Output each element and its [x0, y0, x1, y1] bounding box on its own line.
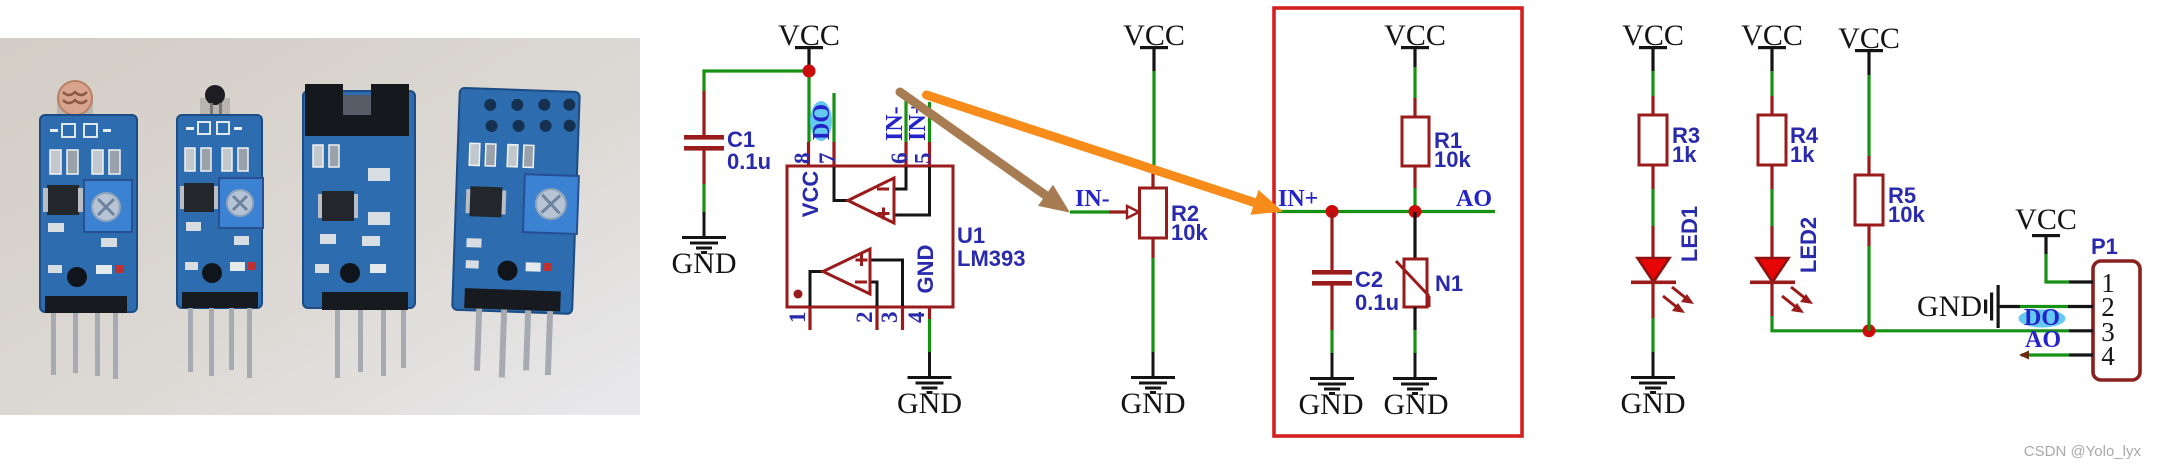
- U1 internal VCC text: [798, 171, 823, 218]
- net label IN- (pin 6): [882, 106, 908, 141]
- thermistor N1: [1396, 212, 1463, 330]
- svg-text:1: 1: [785, 312, 810, 324]
- annotation arrow (orange) to IN+: [927, 95, 1284, 215]
- svg-text:N1: N1: [1435, 271, 1463, 296]
- svg-text:10k: 10k: [1171, 220, 1208, 245]
- svg-text:IN+: IN+: [1278, 186, 1318, 212]
- watermark: [2024, 443, 2142, 460]
- IC U1 LM393 body: [787, 166, 953, 307]
- svg-text:AO: AO: [2025, 327, 2061, 353]
- svg-text:7: 7: [815, 153, 840, 165]
- op-amp U1A wiring: [834, 167, 930, 215]
- svg-text:C2: C2: [1355, 267, 1383, 292]
- power VCC (R4): [1741, 19, 1803, 71]
- power VCC (R1): [1384, 19, 1446, 67]
- svg-text:CSDN @Yolo_lyx: CSDN @Yolo_lyx: [2024, 443, 2142, 460]
- op-amp U1B: [823, 249, 870, 294]
- net label DO (highlighted): [809, 101, 835, 141]
- net label AO (P1): [2025, 327, 2061, 353]
- capacitor C1: [684, 91, 771, 184]
- ground (U1): [897, 352, 962, 420]
- svg-text:DO: DO: [809, 104, 835, 140]
- P1 pin 4: [2069, 341, 2115, 371]
- label LED1: [1677, 206, 1702, 262]
- junction (C2 node): [1326, 205, 1339, 218]
- ground (R2): [1121, 352, 1186, 420]
- ground (C1): [672, 212, 737, 280]
- svg-text:LED1: LED1: [1677, 206, 1702, 262]
- connector P1: [2091, 234, 2140, 380]
- wire U1 pin 4 to ground: [928, 319, 931, 353]
- net label DO (highlighted, P1): [2019, 305, 2066, 331]
- wire VCC to R2: [1152, 71, 1155, 173]
- potentiometer R2: [1109, 173, 1208, 258]
- svg-text:4: 4: [904, 311, 929, 323]
- label LED2: [1796, 217, 1821, 273]
- wire R5 to node: [1867, 246, 1870, 331]
- wire C2 to ground: [1330, 330, 1333, 354]
- svg-text:4: 4: [2101, 341, 2115, 371]
- junction (R1/N1 node): [1409, 205, 1422, 218]
- U1 pin 6 stub: [887, 99, 912, 166]
- module board 1 (photoresistor): [40, 81, 137, 379]
- svg-text:6: 6: [887, 153, 912, 165]
- svg-text:IN-: IN-: [1075, 186, 1110, 212]
- power VCC (P1): [2015, 203, 2077, 254]
- svg-text:VCC: VCC: [798, 171, 823, 218]
- svg-text:U1: U1: [957, 223, 985, 248]
- U1 pin 4: [904, 307, 930, 323]
- ground (LED1): [1621, 352, 1686, 420]
- P1 pin 3: [2069, 317, 2115, 347]
- svg-text:VCC: VCC: [2015, 203, 2077, 236]
- svg-text:0.1u: 0.1u: [727, 149, 771, 174]
- junction VCC rail: [803, 65, 816, 78]
- wire LED2 to node: [1772, 316, 2069, 331]
- U1 internal GND text: [913, 245, 938, 294]
- wire VCC rail to C1: [704, 71, 809, 91]
- resistor R3: [1639, 96, 1700, 189]
- power VCC (R5): [1838, 22, 1900, 75]
- U1 pin 1: [785, 307, 810, 330]
- wire LED1 to ground: [1651, 318, 1654, 353]
- svg-text:P1: P1: [2091, 234, 2118, 259]
- svg-text:2: 2: [852, 312, 877, 324]
- wire VCC to R3: [1651, 71, 1654, 96]
- U1 pin 3: [877, 307, 903, 330]
- wire IN+ / AO: [1277, 210, 1495, 213]
- svg-text:1k: 1k: [1672, 142, 1697, 167]
- svg-text:0.1u: 0.1u: [1355, 290, 1399, 315]
- svg-text:GND: GND: [1917, 290, 1982, 323]
- wire AO to P1 pin 4: [2019, 351, 2069, 360]
- module board 4 (tilted, pot at right): [450, 88, 582, 380]
- wire DO to P1 pin 2: [2020, 305, 2068, 308]
- U1 pin 7 (DO) stub: [815, 93, 840, 166]
- resistor R5: [1855, 156, 1925, 246]
- U1 pin 2: [852, 307, 877, 330]
- net label AO: [1456, 186, 1492, 212]
- U1 designator labels: [957, 223, 1025, 271]
- wire C1 to ground: [702, 184, 705, 213]
- svg-text:GND: GND: [672, 247, 737, 280]
- ground (C2): [1299, 353, 1364, 421]
- svg-text:1k: 1k: [1790, 142, 1815, 167]
- capacitor C2: [1312, 212, 1399, 330]
- wire R3 to LED1: [1651, 189, 1654, 226]
- junction (R5 node): [1863, 324, 1876, 337]
- svg-text:5: 5: [911, 153, 936, 165]
- ground (N1): [1384, 353, 1449, 421]
- U1 pin 5 stub: [911, 102, 936, 166]
- power VCC rail (C1/U1): [778, 19, 840, 71]
- net label IN+: [1278, 186, 1318, 212]
- U1 pin 1 marker dot: [794, 290, 803, 299]
- op-amp U1A: [848, 178, 894, 223]
- svg-text:10k: 10k: [1434, 147, 1471, 172]
- P1 pin 1: [2069, 268, 2115, 298]
- svg-text:10k: 10k: [1888, 202, 1925, 227]
- U1 pin 8 (VCC): [790, 142, 815, 166]
- module board 2 (thermistor): [177, 85, 263, 378]
- wire R2 to ground: [1151, 258, 1154, 353]
- wire VCC to R5: [1867, 75, 1870, 156]
- red highlight box: [1274, 8, 1522, 436]
- photo of sensor modules: [0, 38, 640, 415]
- wire VCC to P1 pin 1: [2046, 254, 2069, 282]
- resistor R1: [1402, 98, 1471, 188]
- power VCC (R3): [1622, 19, 1684, 71]
- module board 3 (slot opto sensor): [303, 84, 415, 378]
- wire N1 to ground: [1413, 330, 1416, 354]
- svg-text:GND: GND: [1121, 387, 1186, 420]
- P1 pin 2: [2068, 292, 2115, 322]
- svg-text:LM393: LM393: [957, 246, 1025, 271]
- wire VCC to R4: [1770, 71, 1773, 96]
- svg-text:3: 3: [877, 312, 902, 324]
- svg-text:GND: GND: [1299, 388, 1364, 421]
- power VCC (R2): [1123, 19, 1185, 71]
- wire VCC rail to U1 pin 8: [807, 71, 810, 142]
- wire IN- to R2 wiper: [1070, 210, 1109, 213]
- svg-text:GND: GND: [1384, 388, 1449, 421]
- svg-text:GND: GND: [913, 245, 938, 294]
- wire R4 to LED2: [1770, 189, 1773, 226]
- LED LED2: [1750, 226, 1813, 316]
- wire VCC to R1: [1413, 67, 1416, 98]
- net label IN+ (pin 5): [905, 101, 931, 141]
- op-amp U1B wiring: [810, 260, 903, 306]
- svg-text:AO: AO: [1456, 186, 1492, 212]
- ground (P1, sideways): [1917, 285, 2020, 328]
- LED LED1: [1631, 226, 1694, 318]
- svg-text:GND: GND: [1621, 387, 1686, 420]
- wire R1 to node: [1413, 188, 1416, 212]
- svg-text:8: 8: [790, 153, 815, 165]
- net label IN-: [1075, 186, 1110, 212]
- svg-text:LED2: LED2: [1796, 217, 1821, 273]
- annotation arrow (brown) to IN-: [900, 92, 1070, 213]
- resistor R4: [1758, 96, 1819, 189]
- svg-text:GND: GND: [897, 387, 962, 420]
